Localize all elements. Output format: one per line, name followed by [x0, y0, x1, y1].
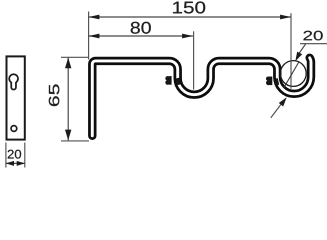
extension line at wall (left)	[88, 12, 90, 60]
bracket profile (side view strip)	[92, 58, 311, 136]
extension line at rod centre (right)	[290, 13, 292, 89]
diameter leader line through rod	[284, 62, 299, 87]
extension lines for height 65	[61, 56, 89, 58]
dimension 80	[89, 22, 193, 39]
extension lines for width 20	[5, 143, 7, 168]
dimension 20 (plate width)	[6, 150, 25, 166]
rod cross-section circle	[280, 61, 306, 87]
clamp screw on second cup	[266, 77, 279, 86]
screw hole	[11, 126, 17, 132]
lower leader arrow	[271, 97, 287, 118]
extension line at first cup centre	[193, 31, 195, 89]
dimension 65	[49, 57, 72, 140]
rod diameter 20 label	[295, 31, 327, 62]
bracket wall-plate front view	[7, 56, 25, 139]
dimension 150	[89, 2, 291, 20]
clamp screw on first cup	[165, 76, 181, 85]
keyhole slot	[9, 74, 18, 89]
